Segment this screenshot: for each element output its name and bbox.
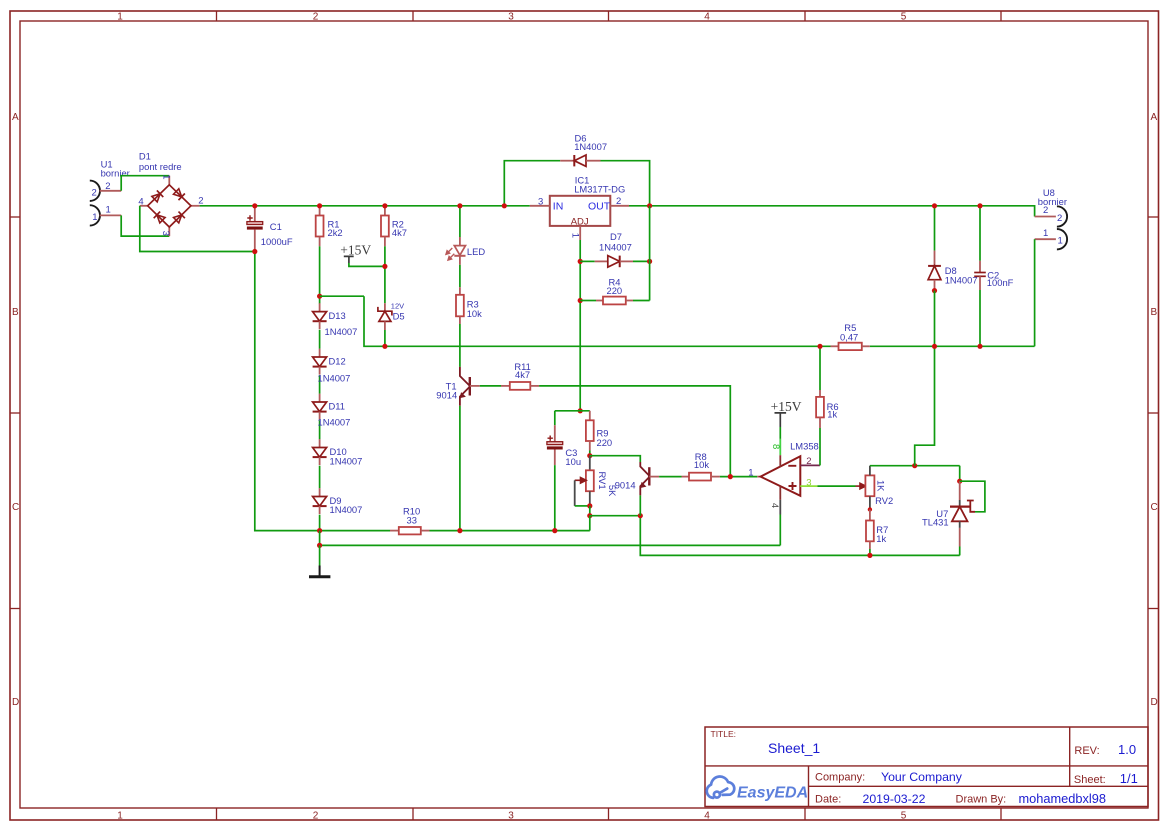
op-amp U2 input pin stub — [757, 476, 760, 478]
svg-text:LM317T-DG: LM317T-DG — [574, 184, 625, 195]
wire RV1 bottom to rail1 — [589, 516, 591, 531]
wire OUT vertical to R4 — [649, 206, 651, 301]
transistor T1 collector — [460, 367, 470, 386]
U8 pin 2 line — [1035, 216, 1056, 218]
svg-text:Date:: Date: — [815, 793, 841, 805]
svg-text:220: 220 — [607, 285, 623, 296]
LM317 IN pin 3 line — [530, 205, 550, 207]
svg-text:1: 1 — [117, 811, 123, 822]
svg-text:TL431: TL431 — [922, 516, 949, 527]
title block divider horizontal main — [705, 765, 1148, 767]
diode D8 top pin — [934, 251, 936, 266]
svg-text:1k: 1k — [876, 533, 886, 544]
svg-text:B: B — [12, 307, 19, 318]
wire C3 R9 node — [555, 410, 590, 412]
capacitor C3 plus sign — [548, 436, 553, 441]
power flag +15V left symbol — [344, 256, 354, 263]
svg-text:RV1: RV1 — [597, 472, 608, 490]
wire R1 to D13 — [319, 246, 321, 303]
resistor R6 bottom pin — [819, 417, 821, 428]
svg-text:D: D — [12, 697, 19, 708]
wire bottom rail 2 (GND to op-amp pin4) — [320, 544, 781, 546]
capacitor C2 top pin — [979, 261, 981, 272]
svg-text:4: 4 — [769, 503, 780, 508]
junction dot RV2 R7 — [868, 507, 872, 511]
resistor R2 bottom pin — [384, 237, 386, 247]
svg-text:C: C — [12, 502, 19, 513]
wire bottom rail 1 right of R10 — [430, 530, 590, 532]
op-amp LM358 triangle — [761, 456, 801, 496]
diode D11 symbol — [313, 402, 327, 412]
junction dot ADJ R4 node — [578, 298, 583, 303]
svg-text:A: A — [1151, 112, 1158, 123]
resistor R7 top pin — [869, 510, 871, 521]
svg-text:EasyEDA: EasyEDA — [737, 785, 808, 802]
frame row letters right — [1151, 112, 1158, 708]
svg-text:Sheet_1: Sheet_1 — [768, 740, 820, 756]
transistor Q2 base pin — [649, 476, 659, 478]
wire RV2 top net — [870, 465, 960, 467]
bridge D1 pin 2 stub right — [191, 205, 200, 207]
wire main rail from bridge to LM317 IN — [200, 205, 530, 207]
svg-text:1: 1 — [160, 174, 171, 179]
bridge D1 pin 1 stub top — [168, 176, 170, 185]
svg-text:1: 1 — [748, 467, 753, 478]
svg-text:5: 5 — [901, 811, 907, 822]
resistor R2 top pin — [384, 206, 386, 216]
title block divider horizontal middle cell — [809, 785, 1149, 787]
wire net to TL431 cathode — [959, 466, 961, 482]
resistor R4 body — [603, 297, 626, 305]
svg-text:Sheet:: Sheet: — [1074, 774, 1106, 786]
diode D6 left pin — [560, 160, 574, 162]
RV2 wiper arrow — [856, 483, 866, 489]
svg-text:bornier: bornier — [1038, 196, 1067, 207]
junction dot D8 mid rail — [932, 344, 937, 349]
TL431 reference loop wire — [960, 481, 985, 512]
svg-text:5: 5 — [901, 12, 907, 23]
op-amp V- pin 4 gray segment — [779, 500, 781, 515]
junction dot D5 bottom — [382, 344, 387, 349]
svg-text:1N4007: 1N4007 — [318, 373, 351, 384]
transistor Q2 emitter — [640, 477, 649, 495]
resistor R3 top pin — [459, 287, 461, 295]
wire Q2 emitter down — [639, 495, 641, 515]
diode D7 left pin — [595, 260, 608, 262]
resistor R11 left pin — [501, 385, 510, 387]
svg-text:4k7: 4k7 — [515, 369, 530, 380]
svg-text:4: 4 — [138, 196, 143, 207]
svg-text:1N4007: 1N4007 — [330, 456, 363, 467]
junction dot ground node — [317, 543, 322, 548]
connector U8 pin 2 arc — [1057, 206, 1067, 226]
svg-text:4: 4 — [704, 811, 710, 822]
transistor Q2 emitter arrow — [640, 482, 647, 488]
wire T1 emitter to bottom rail — [459, 406, 461, 531]
svg-text:8: 8 — [770, 444, 781, 449]
svg-text:4k7: 4k7 — [392, 227, 407, 238]
wire R7 to bottom rail 3 — [869, 549, 871, 555]
resistor R8 left pin — [682, 476, 690, 478]
op-amp V- pin 4 stub — [779, 486, 781, 500]
svg-text:2: 2 — [1043, 205, 1048, 216]
diode D6 symbol — [574, 155, 586, 166]
LED symbol — [454, 246, 465, 256]
transistor T1 base bar — [469, 377, 471, 396]
wire R3 to T1 collector — [459, 324, 461, 367]
junction dot R1 top — [317, 203, 322, 208]
LED bottom pin — [459, 256, 461, 265]
resistor R9 body — [586, 420, 594, 441]
svg-text:bornier: bornier — [101, 167, 130, 178]
svg-text:1k: 1k — [827, 409, 837, 420]
svg-text:D11: D11 — [329, 401, 346, 412]
diode D8 symbol — [928, 265, 941, 267]
svg-text:1/1: 1/1 — [1120, 771, 1138, 786]
wire node to C3 — [554, 411, 556, 425]
frame column ticks bottom — [217, 808, 1002, 820]
svg-text:B: B — [1151, 307, 1158, 318]
wire +15V flag to R2 net — [349, 263, 385, 266]
ground stem wire — [319, 545, 321, 565]
capacitor C2 bottom pin — [979, 276, 981, 290]
diode D10 top pin — [319, 439, 321, 447]
resistor R8 body — [689, 473, 711, 481]
frame row ticks left — [10, 217, 20, 609]
diode D13 bottom pin — [319, 321, 321, 329]
junction dot RV1 wiper tie — [587, 503, 592, 508]
svg-text:pont redre: pont redre — [139, 161, 182, 172]
junction dot D8 top — [932, 203, 937, 208]
wire D8 to mid rail — [934, 291, 936, 347]
junction dot ADJ D7 node — [578, 259, 583, 264]
svg-text:A: A — [12, 112, 19, 123]
resistor R11 right pin — [530, 385, 539, 387]
capacitor C3 top plate — [547, 442, 563, 445]
transistor T1 base pin — [470, 385, 480, 387]
resistor R10 right pin — [421, 530, 430, 532]
svg-text:1: 1 — [1043, 228, 1048, 239]
resistor R10 body — [399, 527, 421, 534]
resistor R2 body — [381, 216, 389, 237]
U1 pin 1 line — [100, 214, 122, 216]
bridge D1 pin 3 stub bottom — [168, 227, 170, 236]
U1 pin 2 line — [100, 190, 122, 192]
junction dot above D13 — [317, 294, 322, 299]
op-amp plus sign — [789, 482, 797, 490]
svg-text:1: 1 — [570, 233, 581, 238]
junction dot C1 top — [252, 203, 257, 208]
wire bottom rail 3 (emitter node to TL431 anode) — [640, 516, 959, 556]
junction dot D8 bottom — [932, 288, 937, 293]
LED top pin — [459, 237, 461, 246]
svg-text:TITLE:: TITLE: — [711, 729, 737, 739]
svg-text:D12: D12 — [329, 356, 346, 367]
resistor R4 left pin — [596, 300, 603, 302]
svg-text:10k: 10k — [694, 459, 709, 470]
wire R8 to op-amp — [720, 476, 757, 478]
diode D6 right pin — [586, 160, 601, 162]
svg-text:9014: 9014 — [436, 389, 457, 400]
diode D11 top pin — [319, 394, 321, 402]
wire U1 pin1 to bridge pin3 — [121, 215, 169, 236]
junction dot D7 right — [647, 259, 652, 264]
junction dot +15V net — [382, 264, 387, 269]
svg-text:+15V: +15V — [340, 242, 371, 257]
resistor R6 top pin — [819, 390, 821, 397]
svg-text:ADJ: ADJ — [571, 216, 589, 227]
junction dot LED top — [457, 203, 462, 208]
svg-text:4: 4 — [704, 12, 710, 23]
svg-text:100nF: 100nF — [987, 277, 1014, 288]
op-amp V+ pin 8 wire — [779, 427, 781, 439]
resistor R3 body — [456, 295, 464, 317]
diode D12 top pin — [319, 349, 321, 357]
svg-text:1N4007: 1N4007 — [945, 274, 978, 285]
resistor R1 bottom pin — [319, 237, 321, 247]
junction dot C2 top — [977, 203, 982, 208]
junction dot C1 bottom — [252, 249, 257, 254]
op-amp non-inverting pin 3 wire — [800, 485, 817, 487]
wire RV1 to emitter node — [589, 506, 591, 516]
diode D10 bottom pin — [319, 457, 321, 465]
wire jog from D8 node down — [915, 346, 935, 465]
RV1 wiper stub — [574, 480, 576, 506]
svg-text:Company:: Company: — [815, 771, 865, 783]
wire rail to C2 — [979, 206, 981, 261]
wire R2 to D5 — [384, 246, 386, 303]
svg-text:2019-03-22: 2019-03-22 — [863, 792, 926, 806]
connector U8 pin 1 arc — [1057, 229, 1067, 249]
U8 pin 1 line — [1035, 238, 1056, 240]
svg-text:C1: C1 — [270, 221, 282, 232]
svg-text:C: C — [1151, 502, 1158, 513]
svg-text:2: 2 — [313, 12, 319, 23]
svg-text:2: 2 — [806, 456, 811, 467]
resistor R6 body — [816, 397, 824, 418]
svg-text:1N4007: 1N4007 — [325, 326, 358, 337]
wire D6 left leg — [504, 161, 560, 206]
bridge D1 pin 4 stub left — [140, 205, 148, 207]
capacitor C3 bottom pin — [554, 450, 556, 466]
capacitor C1 bottom pin — [254, 230, 256, 252]
title block outline — [705, 727, 1148, 807]
junction dot C3 bottom — [552, 528, 557, 533]
wire RV1 wiper to bottom terminal — [575, 505, 590, 507]
bridge D1 diode lower-left edge — [154, 212, 166, 224]
svg-text:10u: 10u — [565, 456, 581, 467]
junction dot op-amp input node — [728, 474, 733, 479]
TL431 anode gray segment — [959, 521, 961, 528]
wire bridge pin4 to C1 bottom — [140, 206, 255, 252]
svg-text:D13: D13 — [329, 310, 346, 321]
svg-text:2: 2 — [198, 196, 203, 207]
wire U8 pin1 down to mid rail — [1034, 239, 1036, 346]
junction dot ADJ bottom node — [578, 408, 583, 413]
capacitor C2 plates — [974, 273, 986, 277]
LM317 IC1 box — [550, 196, 611, 226]
potentiometer RV1 wiper arrow — [575, 478, 587, 484]
title block divider vertical right — [1069, 727, 1071, 786]
bridge D1 diode lower-right edge — [173, 212, 185, 224]
svg-text:1N4007: 1N4007 — [318, 417, 351, 428]
wire mid rail to R6 — [819, 346, 821, 390]
resistor R9 bottom pin — [589, 441, 591, 451]
svg-text:REV:: REV: — [1074, 745, 1099, 757]
svg-text:D5: D5 — [393, 311, 405, 322]
frame column numbers bottom — [117, 811, 907, 822]
svg-text:D: D — [1151, 697, 1158, 708]
op-amp V+ pin 8 stub — [779, 455, 781, 467]
capacitor C1 bottom plate — [247, 227, 263, 230]
resistor R7 bottom pin — [869, 541, 871, 549]
transistor Q2 collector — [640, 462, 649, 476]
wire U1 pin2 to bridge pin1 — [121, 176, 169, 191]
capacitor C1 plus sign — [247, 215, 252, 220]
svg-text:0,47: 0,47 — [840, 331, 858, 342]
TL431 anode pin — [959, 528, 961, 547]
frame row letters left — [12, 112, 19, 708]
diode D13 symbol — [313, 312, 327, 322]
connector U1 pin 2 arc — [90, 181, 100, 201]
resistor R3 bottom pin — [459, 316, 461, 324]
junction dot emitter wire left — [587, 513, 592, 518]
potentiometer RV1 body — [586, 470, 594, 491]
svg-text:9014: 9014 — [615, 480, 636, 491]
wire D5 to mid rail — [384, 330, 386, 346]
svg-text:1: 1 — [92, 212, 97, 223]
potentiometer RV1 bottom pin — [589, 491, 591, 506]
diode D9 top pin — [319, 488, 321, 496]
wire R4 to vertical — [633, 300, 650, 302]
svg-text:3: 3 — [508, 12, 514, 23]
junction dot R2 top — [382, 203, 387, 208]
junction dot RV2 net — [912, 463, 917, 468]
svg-text:33: 33 — [407, 515, 417, 526]
potentiometer RV1 top pin — [589, 456, 591, 471]
svg-text:RV2: RV2 — [875, 495, 893, 506]
wire Q2 base to R8 — [659, 476, 681, 478]
wire mid rail y=346 — [364, 296, 831, 346]
wire D13 node to mid rail corner — [320, 295, 364, 297]
transistor Q2 base bar — [648, 467, 650, 485]
capacitor C1 top pin — [254, 206, 256, 222]
junction dot R6 top — [817, 344, 822, 349]
junction dot C2 mid rail — [977, 344, 982, 349]
wire R9 node to Q2 collector — [590, 456, 641, 462]
svg-text:1.0: 1.0 — [1118, 742, 1136, 757]
junction dot emitter wire right — [638, 513, 643, 518]
wire R6 to op-amp pin2 — [819, 428, 821, 465]
EasyEDA logo cloud icon — [707, 777, 735, 798]
svg-text:1000uF: 1000uF — [261, 236, 293, 247]
resistor R1 top pin — [319, 206, 321, 216]
diode D9 bottom pin — [319, 506, 321, 514]
LM317 ADJ pin line — [579, 226, 581, 240]
wire D6 right leg — [601, 161, 650, 206]
resistor R4 right pin — [626, 300, 633, 302]
svg-text:+15V: +15V — [771, 399, 802, 414]
bridge D1 diamond outline — [148, 185, 191, 227]
svg-text:1: 1 — [117, 12, 123, 23]
zener D5 top pin — [384, 303, 386, 311]
svg-text:LM358: LM358 — [790, 440, 819, 451]
junction dot R9 bottom — [587, 453, 592, 458]
resistor R10 left pin — [390, 530, 399, 532]
bridge D1 diode upper-left edge — [151, 190, 163, 202]
svg-text:Drawn By:: Drawn By: — [956, 793, 1007, 805]
wire emitter node horizontal — [590, 515, 641, 517]
frame row ticks right — [1149, 217, 1159, 609]
wire between D11 and D10 — [319, 420, 321, 439]
svg-text:12V: 12V — [391, 301, 404, 310]
diode D12 bottom pin — [319, 367, 321, 375]
diode D10 symbol — [313, 448, 327, 458]
svg-text:1N4007: 1N4007 — [574, 141, 607, 152]
diode D11 bottom pin — [319, 412, 321, 420]
wire rail1 to ground node — [319, 531, 321, 546]
LED top wire — [459, 206, 461, 237]
resistor R7 body — [866, 521, 874, 542]
junction dot TL431 cathode — [957, 479, 962, 484]
resistor R1 body — [316, 216, 324, 237]
capacitor C3 top pin — [554, 425, 556, 442]
svg-text:1N4007: 1N4007 — [330, 504, 363, 515]
ground symbol — [309, 566, 330, 577]
wire TL431 anode to bottom rail 3 — [959, 547, 961, 556]
junction dot D6 left — [502, 203, 507, 208]
wire R11 to op-amp input node — [539, 386, 730, 477]
op-amp minus sign — [788, 465, 796, 467]
junction dot rail1 D9 — [317, 528, 322, 533]
capacitor C1 top plate — [247, 222, 263, 225]
resistor R5 body — [839, 343, 862, 350]
svg-text:1K: 1K — [876, 480, 887, 492]
zener D5 symbol — [378, 307, 392, 322]
transistor T1 emitter — [460, 387, 470, 406]
svg-text:LED: LED — [467, 246, 485, 257]
wire D9 to bottom rail — [319, 515, 321, 531]
svg-text:2: 2 — [92, 187, 97, 198]
potentiometer RV2 top pin — [869, 466, 871, 476]
svg-text:1: 1 — [106, 204, 111, 215]
wire mid rail right of R5 — [870, 345, 1035, 347]
transistor T1 emitter arrow — [459, 392, 466, 398]
title block divider vertical logo cell — [808, 766, 810, 807]
wire rail to D8 — [934, 206, 936, 251]
diode D8 bottom pin — [934, 280, 936, 291]
wire C2 to mid rail — [979, 290, 981, 346]
potentiometer RV2 body — [865, 475, 874, 496]
wire LED to R3 — [459, 265, 461, 287]
wire ADJ down to C3 node — [579, 240, 581, 411]
resistor R8 right pin — [711, 476, 720, 478]
wire between D13 and D12 — [319, 330, 321, 349]
resistor R5 left pin — [831, 345, 839, 347]
svg-text:mohamedbxl98: mohamedbxl98 — [1019, 791, 1107, 806]
svg-text:220: 220 — [597, 437, 613, 448]
bridge D1 diode upper-right edge — [173, 188, 185, 200]
svg-text:3: 3 — [538, 197, 543, 208]
svg-text:3: 3 — [508, 811, 514, 822]
zener D5 bottom pin — [384, 321, 386, 330]
svg-text:3: 3 — [160, 231, 171, 236]
resistor R5 right pin — [862, 345, 870, 347]
svg-text:3: 3 — [806, 477, 811, 488]
svg-text:2: 2 — [313, 811, 319, 822]
svg-text:D1: D1 — [139, 150, 151, 161]
wire between D12 and D11 — [319, 375, 321, 393]
